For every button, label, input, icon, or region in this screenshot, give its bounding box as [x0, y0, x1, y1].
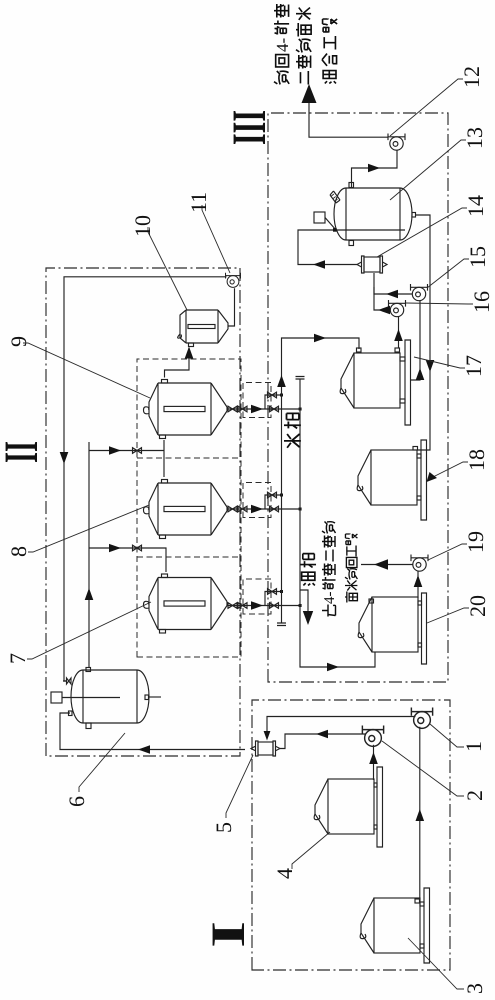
drain assembly reactor 9	[227, 383, 302, 418]
vessel 6 horizontal receiver drum	[69, 668, 150, 729]
wire: vessel 9 overhead to vessel 10	[165, 348, 190, 378]
valve on reactor 8 drop	[133, 448, 142, 454]
text: to 4-ADPA precursor line 1	[322, 522, 338, 617]
cap on oil header right end	[296, 377, 305, 380]
wire: pump 15 discharge	[374, 273, 412, 294]
text: to 4-ADPA precursor line 2	[345, 534, 357, 603]
vessel 6 bottom stub wire	[149, 696, 162, 698]
svg-text:10: 10	[130, 215, 155, 237]
wire: pump 16 discharge	[374, 287, 390, 310]
section box I	[252, 700, 450, 970]
pump 16	[389, 300, 406, 317]
text: oil phase	[301, 554, 317, 586]
arrow on pump 1 suction	[416, 809, 425, 821]
svg-text:17: 17	[461, 355, 486, 377]
label 14	[377, 195, 488, 257]
vessel 18 stirred tank	[357, 440, 426, 520]
arrow at condensation section outlet	[302, 84, 317, 103]
water phase header	[282, 338, 360, 623]
device 5 inline mixer	[251, 741, 280, 756]
label 19	[428, 531, 488, 560]
vessel 20 stirred tank	[358, 593, 426, 664]
wire: pump 2 discharge up to device 5 bottom	[280, 734, 366, 749]
wire: pump 12 discharge out to condensation section	[309, 102, 388, 137]
wire: vessel 20 to pump 19 suction	[417, 572, 419, 599]
wire: manifold from vessel 6 to reactors	[88, 442, 90, 668]
label 8	[6, 505, 149, 557]
reactor 8	[144, 480, 228, 539]
arrow on pump 16 discharge	[378, 306, 390, 315]
label 5	[211, 755, 253, 833]
svg-text:4: 4	[272, 868, 297, 879]
arrow into pump 16	[394, 329, 403, 341]
svg-text:12: 12	[459, 66, 484, 88]
label 16	[406, 291, 494, 313]
wire: vessel 17 platform outlet to pump 15 suction	[411, 301, 421, 380]
cap on water header left end	[277, 623, 286, 626]
pump 19	[411, 555, 428, 572]
svg-text:19: 19	[463, 531, 488, 553]
vessel 17 stirred tank	[340, 340, 410, 425]
vessel 3 stirred tank	[360, 888, 429, 963]
pump 15	[411, 284, 428, 301]
label 11	[186, 192, 230, 273]
arrow on pump 15 suction	[416, 368, 425, 380]
pump 2	[362, 726, 383, 747]
arrow on recycle line pointing left	[60, 452, 69, 464]
text: return to 4-ADPA condensation section, line 1	[273, 4, 292, 84]
svg-text:6: 6	[64, 796, 89, 807]
arrow left on vessel 13 to vessel 18 wire	[426, 360, 435, 372]
svg-text:4-: 4-	[322, 592, 338, 605]
arrow into vessel 10	[185, 347, 194, 359]
svg-text:11: 11	[186, 192, 211, 213]
svg-text:9: 9	[6, 336, 31, 347]
pump 11	[226, 273, 241, 288]
svg-text:15: 15	[465, 246, 490, 268]
label 10	[130, 215, 187, 310]
arrow right on water header	[277, 375, 286, 387]
arrow on reactor 8 drop	[109, 446, 121, 455]
svg-text:14: 14	[463, 195, 488, 217]
wire: vessel 17 to pump 16 suction	[398, 317, 400, 348]
oil phase outlet stub with arrow	[300, 590, 308, 620]
wire: feed from device 5 up to vessel 6 top	[60, 713, 245, 750]
label 12	[390, 66, 484, 136]
reactor 7	[144, 574, 228, 633]
arrow on pump 2 suction	[369, 752, 378, 764]
label 15	[427, 246, 490, 288]
arrow on pump 15 discharge	[386, 290, 398, 299]
arrow down on water header drop to vessel 17	[314, 334, 326, 343]
arrow on feed wire pointing up	[138, 745, 150, 754]
svg-text:3: 3	[462, 983, 487, 994]
wire: vessel 10 to pump 11 suction	[228, 288, 235, 326]
wire: vessel 4 to pump 2 suction	[373, 745, 375, 780]
svg-text:II: II	[0, 441, 48, 463]
label 3	[408, 938, 487, 994]
pump 1	[411, 708, 432, 729]
svg-text:18: 18	[464, 449, 489, 471]
wire: vessel 3 to pump 1 suction	[419, 727, 421, 899]
section box III	[268, 113, 448, 682]
pump 12	[388, 134, 405, 151]
junction node at vessel 13 inlet	[333, 228, 337, 232]
text: line 2	[296, 8, 311, 85]
label 4	[272, 832, 330, 879]
wire: feed drop to reactor 8 and reactor 9	[89, 440, 164, 477]
arrow into device 5 side	[264, 731, 271, 741]
arrow on reactor 7 drop	[109, 544, 121, 552]
wire: vessel 13 bottom outlet to vessel 18	[416, 215, 431, 450]
svg-text:4-: 4-	[273, 38, 292, 53]
arrow on pump 19 discharge	[374, 559, 388, 569]
svg-text:5: 5	[211, 822, 236, 833]
label 6	[64, 733, 125, 807]
vessel 13 instrument box	[314, 212, 336, 230]
arrow on manifold pointing right	[85, 588, 94, 600]
svg-text:7: 7	[5, 653, 30, 664]
section box II	[46, 268, 240, 756]
vessel 4 stirred tank	[314, 767, 382, 847]
vessel 6 instrument box and dip line	[51, 692, 120, 703]
svg-text:16: 16	[469, 291, 494, 313]
label 13	[390, 127, 487, 200]
arrow up on pump 2 discharge	[316, 730, 328, 739]
svg-text:13: 13	[462, 127, 487, 149]
wire: vessel 13 suction to pump 12	[352, 150, 398, 187]
svg-text:III: III	[223, 110, 276, 145]
oil phase header	[300, 379, 375, 667]
drain assembly reactor 8	[227, 483, 302, 518]
svg-text:20: 20	[465, 595, 490, 617]
wire: feed drop to reactor 7	[89, 548, 166, 572]
arrow into pump 19	[414, 575, 423, 587]
svg-text:1: 1	[461, 741, 486, 752]
vessel 13 internal dip tube	[334, 229, 405, 231]
svg-text:2: 2	[462, 790, 487, 801]
label 17	[414, 355, 486, 377]
vessel 13 manway hatched nozzle	[330, 191, 340, 203]
label 2	[382, 741, 487, 801]
arrow down on oil header drop to vessel 20	[327, 663, 339, 672]
label 18	[427, 449, 490, 482]
vessel 13 vertical drum	[334, 183, 416, 246]
valve on reactor 7 drop	[133, 545, 142, 551]
label 7	[5, 602, 151, 664]
valve on vessel 6 recycle inlet	[63, 678, 71, 684]
svg-text:8: 8	[6, 546, 31, 557]
label 20	[427, 595, 490, 623]
text: water phase	[284, 413, 301, 447]
wire: pump 1 discharge up and into device 5	[267, 717, 416, 739]
drain assembly reactor 7	[227, 579, 302, 614]
wire: pump 19 discharge up to reduction section	[361, 564, 413, 566]
label 1	[430, 724, 486, 752]
vessel 10 small receiver	[178, 310, 228, 347]
wire: recycle line from pump 11 to vessel 6 top	[64, 277, 227, 681]
arrow up on device 14 to vessel 13 wire	[313, 260, 325, 269]
arrow down on pump 12 suction	[368, 164, 380, 173]
svg-text:I: I	[202, 921, 255, 948]
reactor 9	[144, 380, 228, 439]
wire: device 14 top to vessel 13 inlet	[298, 230, 357, 265]
label 9	[6, 336, 150, 398]
dashed enclosure cells around reactors	[137, 359, 241, 657]
device 14 inline mixer	[357, 256, 387, 273]
text: line 3	[322, 18, 337, 83]
